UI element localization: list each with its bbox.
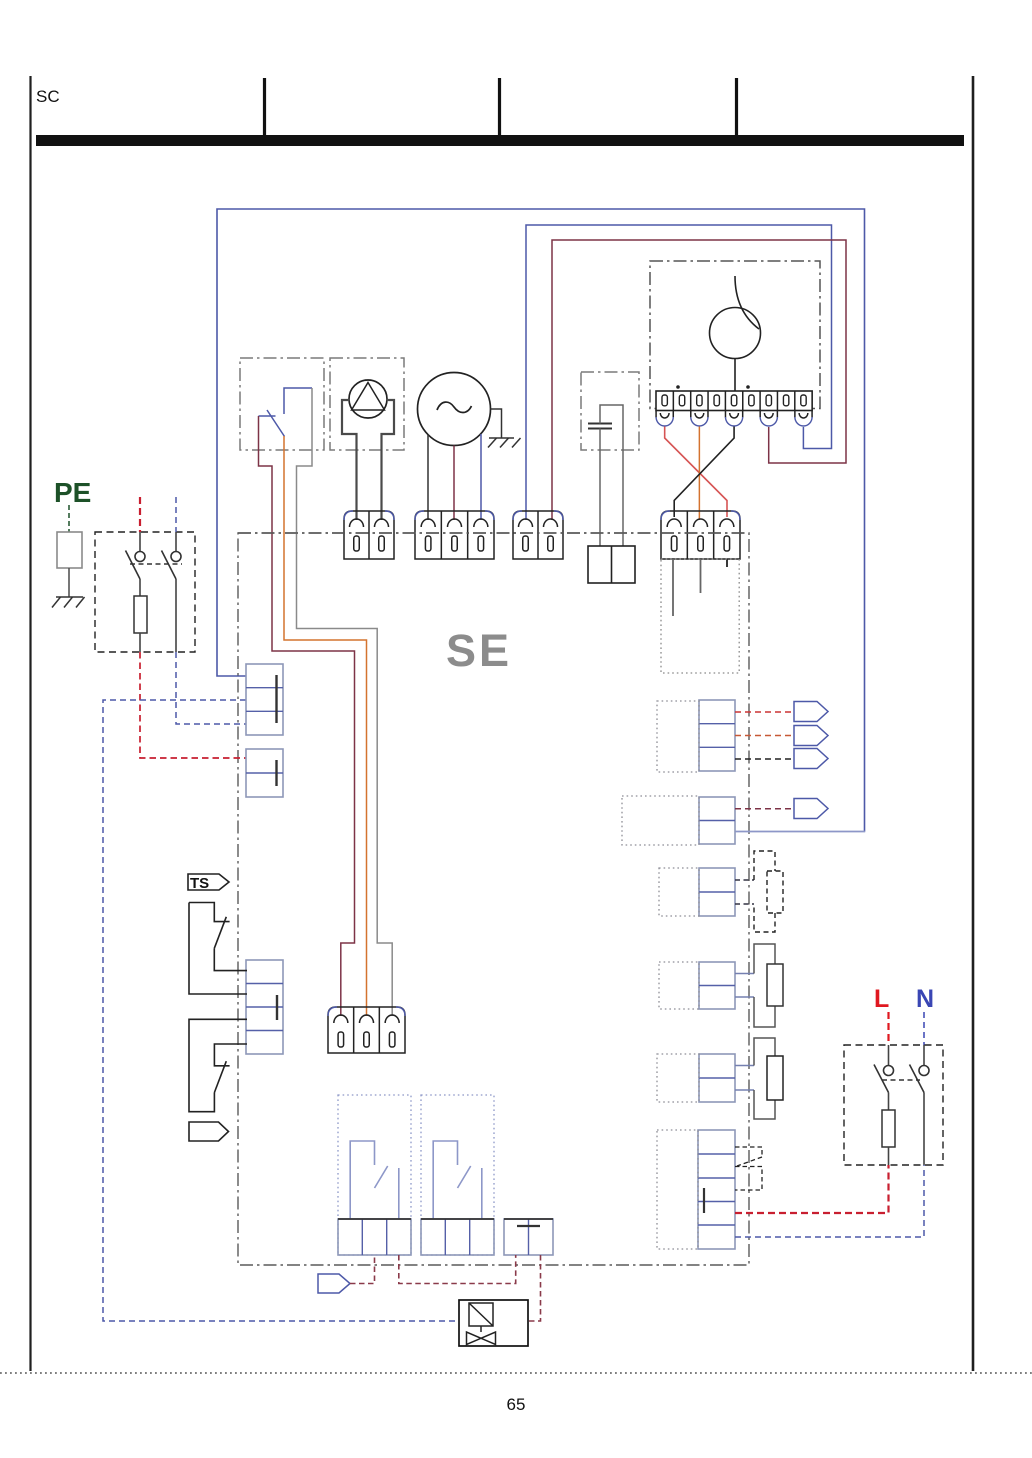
svg-text:L: L	[874, 985, 889, 1013]
svg-text:65: 65	[507, 1395, 526, 1414]
svg-text:SC: SC	[36, 87, 60, 106]
svg-text:TS: TS	[190, 875, 209, 892]
svg-text:PE: PE	[54, 477, 91, 508]
svg-text:N: N	[916, 985, 934, 1013]
svg-text:SE: SE	[446, 625, 512, 676]
